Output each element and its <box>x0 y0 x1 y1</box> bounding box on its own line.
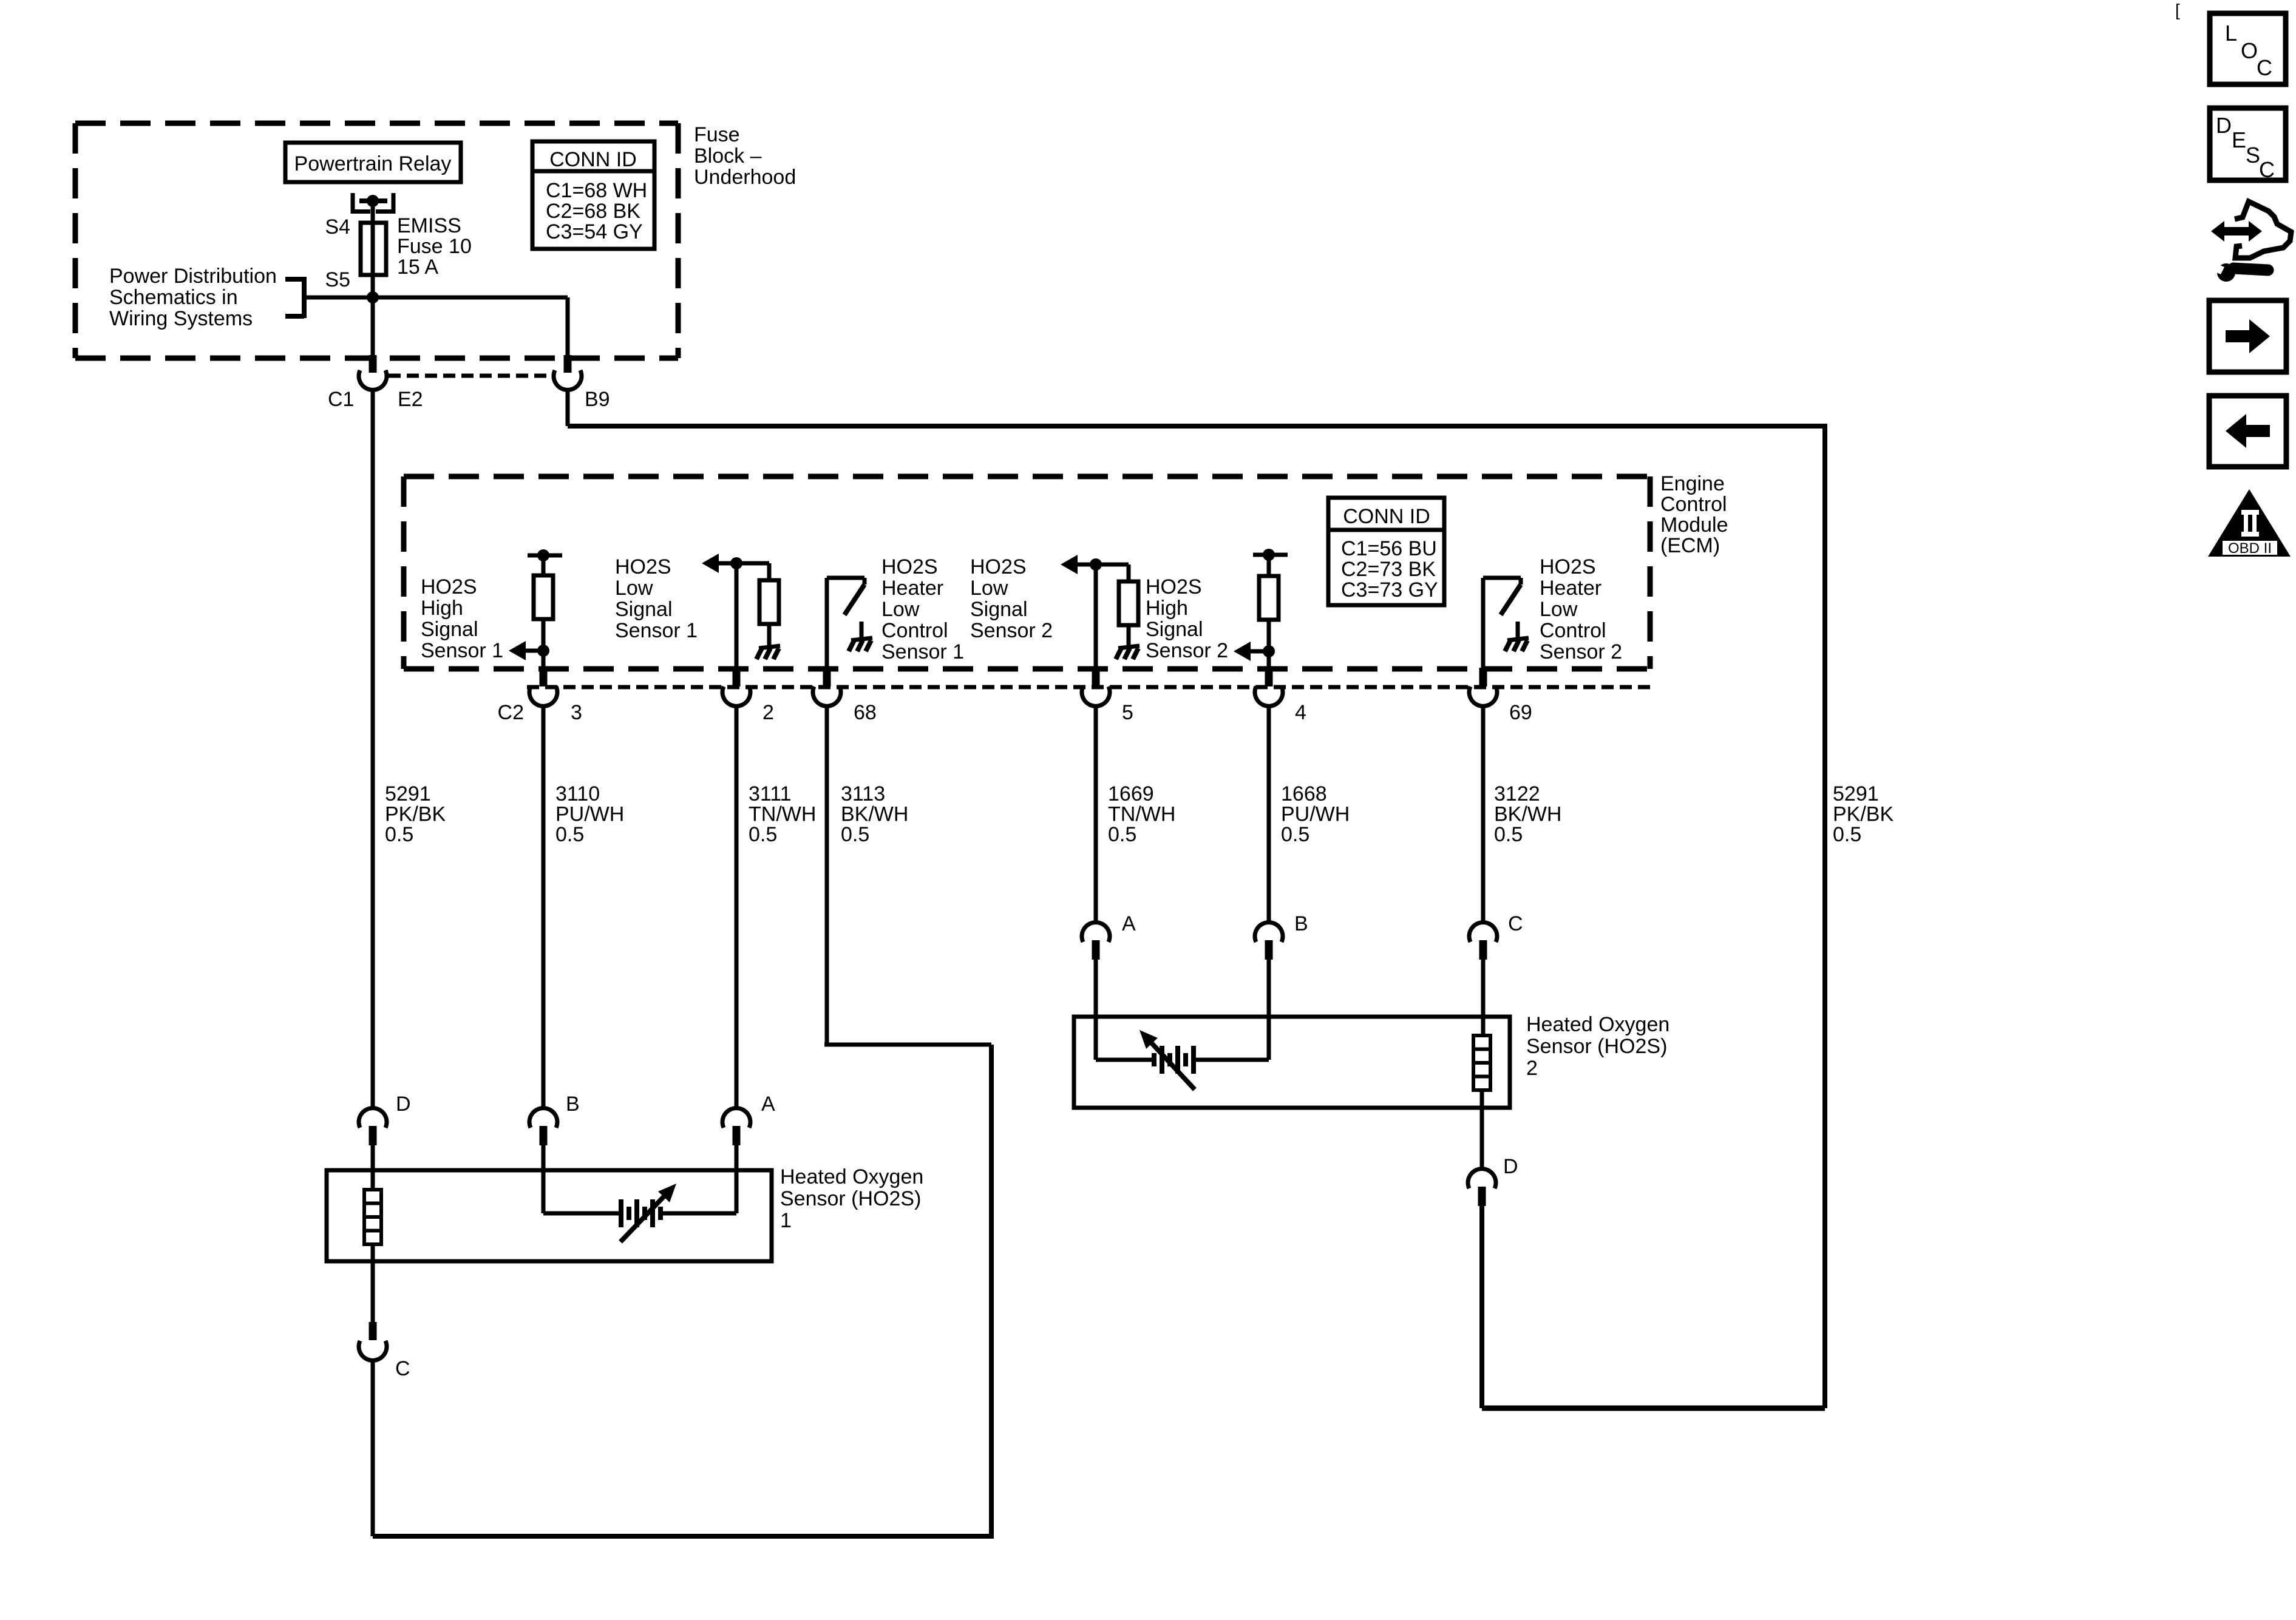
svg-text:Control: Control <box>1660 493 1727 516</box>
svg-text:TN/WH: TN/WH <box>1108 803 1175 826</box>
svg-text:Power Distribution: Power Distribution <box>109 265 277 288</box>
ECM pin 5 stub <box>1092 668 1100 686</box>
svg-text:CONN ID: CONN ID <box>1343 505 1430 528</box>
svg-text:HO2S: HO2S <box>1146 575 1202 598</box>
wire comp2 resistor to ground <box>767 624 772 646</box>
switch comp3 blade <box>844 585 864 615</box>
svg-text:3110: 3110 <box>555 782 600 805</box>
wire sensor2 A inside box <box>1094 1017 1098 1060</box>
relay contact bar <box>359 198 387 203</box>
svg-text:2: 2 <box>1526 1057 1538 1080</box>
wire sensor2 C inside box <box>1481 1017 1486 1035</box>
wire through fuse <box>371 223 375 291</box>
svg-text:E: E <box>2232 127 2246 152</box>
svg-text:0.5: 0.5 <box>385 823 413 846</box>
svg-text:Heater: Heater <box>881 577 943 600</box>
junction dot S5 <box>367 291 379 303</box>
fuse EMISS Fuse 10 <box>361 223 386 275</box>
svg-text:C1=56 BU: C1=56 BU <box>1341 537 1437 560</box>
svg-text:BK/WH: BK/WH <box>1494 803 1561 826</box>
ground comp3 <box>851 638 872 640</box>
svg-text:5: 5 <box>1122 701 1133 724</box>
power distribution bracket <box>285 277 304 282</box>
ground comp6 <box>1507 638 1529 640</box>
svg-text:Sensor 2: Sensor 2 <box>1540 640 1622 663</box>
switch comp3 top bar <box>827 576 864 580</box>
wire sensor2 A to box <box>1094 960 1098 1017</box>
svg-text:Control: Control <box>1540 619 1606 642</box>
ECM dashed box left edge <box>401 476 407 669</box>
svg-text:Schematics in: Schematics in <box>109 286 238 309</box>
svg-text:0.5: 0.5 <box>841 823 869 846</box>
variable heater element sensor1 <box>619 1199 623 1227</box>
svg-text:5291: 5291 <box>385 782 431 805</box>
ECM pin 68 stub <box>823 668 831 686</box>
svg-text:3: 3 <box>571 701 582 724</box>
wire comp5 resistor down <box>1267 620 1271 669</box>
wire 5291 left vertical (C1/E2 to D) <box>371 389 375 1109</box>
svg-text:High: High <box>1146 597 1188 620</box>
wire sensor1 A inside box <box>735 1170 739 1213</box>
svg-text:EMISS: EMISS <box>397 214 461 237</box>
svg-text:Sensor 2: Sensor 2 <box>1146 639 1228 662</box>
connector C1/E2 pin <box>369 355 377 373</box>
svg-text:69: 69 <box>1509 701 1532 724</box>
ECM pin 2 cup <box>722 686 750 706</box>
svg-text:0.5: 0.5 <box>1833 823 1861 846</box>
heated oxygen sensor 1 box <box>327 1170 772 1261</box>
svg-text:C2=73 BK: C2=73 BK <box>1341 558 1436 581</box>
ECM pin 4 cup <box>1255 686 1283 706</box>
ECM dashed box top edge <box>404 474 1650 480</box>
svg-text:C2=68 BK: C2=68 BK <box>546 200 640 223</box>
wire comp2 down to pin2 <box>735 563 739 669</box>
connector C1/E2 cup <box>359 370 387 390</box>
svg-text:D: D <box>396 1093 411 1116</box>
svg-text:68: 68 <box>854 701 877 724</box>
icon back arrow <box>2226 414 2270 448</box>
icon forward arrow <box>2226 319 2270 353</box>
fuse block - underhood dashed box top edge <box>75 121 678 126</box>
svg-text:PU/WH: PU/WH <box>1281 803 1350 826</box>
junction dot comp1 top <box>537 549 549 561</box>
svg-text:OBD II: OBD II <box>2228 540 2272 557</box>
svg-text:3111: 3111 <box>749 782 792 805</box>
wire comp1 resistor to junction <box>542 619 546 669</box>
ECM pin 4 stub <box>1265 668 1273 686</box>
wire 3113 down right leg <box>989 1045 994 1536</box>
wire C up from bottom <box>371 1361 375 1536</box>
icon OBD II triangle <box>2208 489 2291 557</box>
relay contact right post <box>392 193 396 214</box>
svg-text:1: 1 <box>780 1209 792 1232</box>
wire comp3 vertical <box>825 578 829 669</box>
HO2S high signal sensor1 top bar <box>528 554 562 558</box>
wire S5 junction to B9 drop <box>306 296 568 300</box>
wire sensor2 C to box <box>1481 960 1486 1017</box>
svg-text:C2: C2 <box>498 701 524 724</box>
connector sensor1 B cup <box>529 1108 557 1128</box>
CONN ID box ECM <box>1328 498 1444 605</box>
svg-text:HO2S: HO2S <box>421 575 477 598</box>
wire right loop bottom <box>1482 1406 1825 1411</box>
svg-text:Heated Oxygen: Heated Oxygen <box>780 1165 923 1188</box>
wire 1668 pin4 to B <box>1267 705 1271 923</box>
wire sensor1 A to box <box>735 1145 739 1170</box>
svg-text:C: C <box>2257 55 2272 80</box>
wire 3113 pin68 down <box>825 705 829 1045</box>
svg-text:PK/BK: PK/BK <box>385 803 446 826</box>
svg-text:Sensor 2: Sensor 2 <box>970 619 1053 642</box>
wire comp2 corner to resistor <box>767 563 772 580</box>
connector sensor1 D cup <box>359 1108 387 1128</box>
wire comp4 down to pin5 <box>1094 564 1098 669</box>
wire 3110 pin3 to B <box>542 705 546 1109</box>
svg-text:C1: C1 <box>328 388 354 411</box>
svg-text:Wiring Systems: Wiring Systems <box>109 307 253 330</box>
svg-text:Heated Oxygen: Heated Oxygen <box>1526 1013 1669 1036</box>
svg-text:B: B <box>1294 912 1308 935</box>
icon DESC box <box>2210 108 2286 180</box>
wire comp4 resistor to ground <box>1127 625 1131 646</box>
svg-text:HO2S: HO2S <box>1540 555 1596 578</box>
svg-text:B: B <box>566 1093 580 1116</box>
svg-text:Fuse 10: Fuse 10 <box>397 235 472 258</box>
svg-text:Low: Low <box>970 577 1008 600</box>
svg-text:[: [ <box>2175 1 2180 19</box>
icon wrench <box>2217 263 2235 282</box>
ECM pin 69 cup <box>1469 686 1497 706</box>
svg-text:E2: E2 <box>398 388 423 411</box>
svg-text:CONN ID: CONN ID <box>549 148 637 171</box>
resistor comp2 <box>759 580 779 624</box>
powertrain relay box <box>285 143 461 182</box>
wire sensor1 B to box <box>542 1145 546 1170</box>
resistor comp5 <box>1259 576 1279 620</box>
ECM pin 3 cup <box>529 686 557 706</box>
svg-text:(ECM): (ECM) <box>1660 534 1720 557</box>
variable heater element sensor2 <box>1152 1053 1156 1066</box>
ECM dashed box bottom edge <box>404 666 1650 672</box>
HO2S high signal sensor2 top bar <box>1253 553 1288 557</box>
svg-text:Sensor 1: Sensor 1 <box>881 640 964 663</box>
svg-text:TN/WH: TN/WH <box>749 803 816 826</box>
junction dot comp1 <box>537 645 549 657</box>
svg-text:HO2S: HO2S <box>970 555 1027 578</box>
svg-text:4: 4 <box>1295 701 1306 724</box>
wire B9 drop <box>566 297 570 357</box>
ECM pin 68 cup <box>813 686 841 706</box>
svg-text:Block –: Block – <box>694 144 762 168</box>
connector sensor2 C pin <box>1479 940 1487 960</box>
connector sensor2 B cup <box>1255 923 1283 942</box>
svg-text:O: O <box>2241 38 2258 63</box>
switch comp6 top bar <box>1483 576 1521 580</box>
resistor comp4 <box>1119 581 1138 625</box>
wire B9 down to corner <box>566 389 570 426</box>
wire 5291 right vertical <box>1822 424 1827 1408</box>
svg-text:D: D <box>1503 1155 1518 1178</box>
wire sensor1 box to C connector <box>371 1261 375 1323</box>
junction dot comp5 top <box>1263 549 1275 561</box>
connector B9 pin <box>564 355 572 373</box>
svg-text:BK/WH: BK/WH <box>841 803 908 826</box>
svg-text:0.5: 0.5 <box>1108 823 1136 846</box>
wire B9 horizontal to right side <box>568 424 1825 429</box>
svg-text:0.5: 0.5 <box>1494 823 1523 846</box>
connector sensor1 A cup <box>722 1108 750 1128</box>
arrow HO2S high signal sensor1 <box>523 649 543 653</box>
wire comp6 vertical <box>1481 578 1486 669</box>
connector sensor1 C cup <box>359 1341 387 1360</box>
svg-text:Control: Control <box>881 619 948 642</box>
wire relay to fuse <box>371 201 375 223</box>
junction dot comp5 <box>1263 645 1275 657</box>
wire comp5 top to resistor <box>1267 555 1271 576</box>
wire sensor1 D inside box <box>371 1170 375 1190</box>
svg-text:Low: Low <box>1540 598 1578 621</box>
wire fuse to C1 connector <box>371 291 375 357</box>
connector alignment dotted line C1 <box>389 374 552 378</box>
ECM pin 2 stub <box>733 668 741 686</box>
wire 1669 pin5 to A <box>1094 705 1098 923</box>
connector sensor2 D cup <box>1468 1169 1496 1188</box>
svg-text:5291: 5291 <box>1833 782 1879 805</box>
resistor comp1 <box>534 575 553 619</box>
svg-text:Module: Module <box>1660 513 1728 537</box>
svg-text:Sensor (HO2S): Sensor (HO2S) <box>780 1187 921 1210</box>
ground comp4 <box>1118 646 1140 648</box>
svg-text:Sensor (HO2S): Sensor (HO2S) <box>1526 1035 1667 1058</box>
connector sensor2 C cup <box>1469 923 1497 942</box>
svg-text:S5: S5 <box>325 268 350 291</box>
svg-text:Signal: Signal <box>421 618 478 641</box>
svg-text:1669: 1669 <box>1108 782 1154 805</box>
svg-text:2: 2 <box>763 701 774 724</box>
ECM dashed box right edge <box>1648 476 1653 669</box>
svg-text:B9: B9 <box>585 388 610 411</box>
arrow HO2S low signal sensor1 <box>702 554 719 573</box>
svg-text:PK/BK: PK/BK <box>1833 803 1894 826</box>
icon vehicle outline <box>2235 202 2291 258</box>
wire sensor1 D to box <box>371 1145 375 1170</box>
ECM pin 5 cup <box>1082 686 1110 706</box>
svg-text:HO2S: HO2S <box>615 555 671 578</box>
connector sensor1 C pin <box>369 1322 377 1340</box>
relay contact left post <box>351 193 355 214</box>
connector B9 cup <box>554 370 582 390</box>
svg-text:Signal: Signal <box>970 598 1028 621</box>
svg-text:C: C <box>2259 157 2275 182</box>
svg-text:Underhood: Underhood <box>694 166 796 189</box>
wire comp6 ground tick <box>1516 622 1520 638</box>
connector sensor1 D pin <box>369 1126 377 1145</box>
svg-text:0.5: 0.5 <box>1281 823 1309 846</box>
svg-text:Sensor 1: Sensor 1 <box>421 639 503 662</box>
svg-text:S: S <box>2246 143 2260 168</box>
wire comp4 corner to resistor <box>1127 564 1131 581</box>
connector sensor1 A pin <box>733 1126 741 1145</box>
junction dot comp2 <box>730 557 742 569</box>
svg-text:Heater: Heater <box>1540 577 1601 600</box>
connector sensor2 A cup <box>1082 923 1110 942</box>
svg-text:C: C <box>395 1357 410 1380</box>
arrow HO2S high signal sensor2 <box>1234 642 1251 661</box>
svg-text:Low: Low <box>615 577 653 600</box>
svg-text:C1=68 WH: C1=68 WH <box>546 179 647 202</box>
icon double arrow <box>2211 221 2262 242</box>
ECM connector dotted line <box>527 685 1650 690</box>
wire left loop bottom <box>373 1534 994 1539</box>
fuse block dashed box right edge <box>676 123 681 358</box>
heater element sensor2 <box>1473 1035 1490 1090</box>
svg-text:0.5: 0.5 <box>749 823 777 846</box>
wire 3122 pin69 to C <box>1481 705 1486 923</box>
svg-text:C3=54 GY: C3=54 GY <box>546 220 643 243</box>
wire right loop up to sensor2 D <box>1479 1205 1484 1408</box>
ECM pin 3 stub <box>540 668 548 686</box>
svg-text:D: D <box>2216 113 2232 138</box>
icon forward arrow box <box>2209 300 2286 372</box>
icon LOC box <box>2210 13 2286 84</box>
arrow HO2S low signal sensor2 <box>1061 555 1078 574</box>
connector sensor2 B pin <box>1265 940 1273 960</box>
svg-text:3122: 3122 <box>1494 782 1540 805</box>
wire sensor2 B inside box <box>1267 1017 1271 1060</box>
svg-text:C3=73 GY: C3=73 GY <box>1341 578 1438 602</box>
svg-text:Powertrain Relay: Powertrain Relay <box>294 152 452 175</box>
svg-text:1668: 1668 <box>1281 782 1327 805</box>
switch comp6 blade <box>1501 585 1521 615</box>
svg-text:HO2S: HO2S <box>881 555 938 578</box>
svg-text:Low: Low <box>881 598 920 621</box>
ground comp2 <box>759 646 780 648</box>
svg-text:Fuse: Fuse <box>694 123 740 146</box>
fuse block dashed box left edge <box>73 123 78 358</box>
svg-text:Engine: Engine <box>1660 472 1725 495</box>
junction dot S4 <box>367 195 379 207</box>
heater element sensor1 <box>364 1190 381 1244</box>
svg-text:PU/WH: PU/WH <box>555 803 624 826</box>
connector sensor2 A pin <box>1092 940 1100 960</box>
connector sensor2 D pin <box>1478 1187 1486 1206</box>
wire sensor2 box to D connector <box>1480 1108 1484 1169</box>
wire sensor2 B to box <box>1267 960 1271 1017</box>
svg-text:Signal: Signal <box>1146 618 1203 641</box>
svg-text:3113: 3113 <box>841 782 885 805</box>
junction dot comp4 <box>1090 558 1102 571</box>
icon back arrow box <box>2209 396 2286 467</box>
svg-text:Sensor 1: Sensor 1 <box>615 619 698 642</box>
wire comp3 ground tick <box>860 622 864 638</box>
fuse block dashed box bottom edge <box>75 356 678 361</box>
svg-text:A: A <box>761 1093 775 1116</box>
CONN ID box fuse block <box>532 141 654 249</box>
ECM pin 69 stub <box>1479 668 1487 686</box>
svg-text:A: A <box>1122 912 1136 935</box>
heated oxygen sensor 2 box <box>1074 1017 1510 1108</box>
wire comp1 top to resistor <box>542 555 546 575</box>
svg-text:0.5: 0.5 <box>555 823 584 846</box>
connector sensor1 B pin <box>540 1126 548 1145</box>
svg-text:S4: S4 <box>325 215 350 239</box>
svg-text:C: C <box>1508 912 1523 935</box>
wire 3111 pin2 to A <box>735 705 739 1109</box>
svg-text:Signal: Signal <box>615 598 673 621</box>
wire 3113 jog right <box>824 1043 991 1047</box>
svg-text:High: High <box>421 597 463 620</box>
svg-text:15 A: 15 A <box>397 256 438 279</box>
wire sensor1 B inside box <box>542 1170 546 1213</box>
svg-text:L: L <box>2225 21 2237 46</box>
